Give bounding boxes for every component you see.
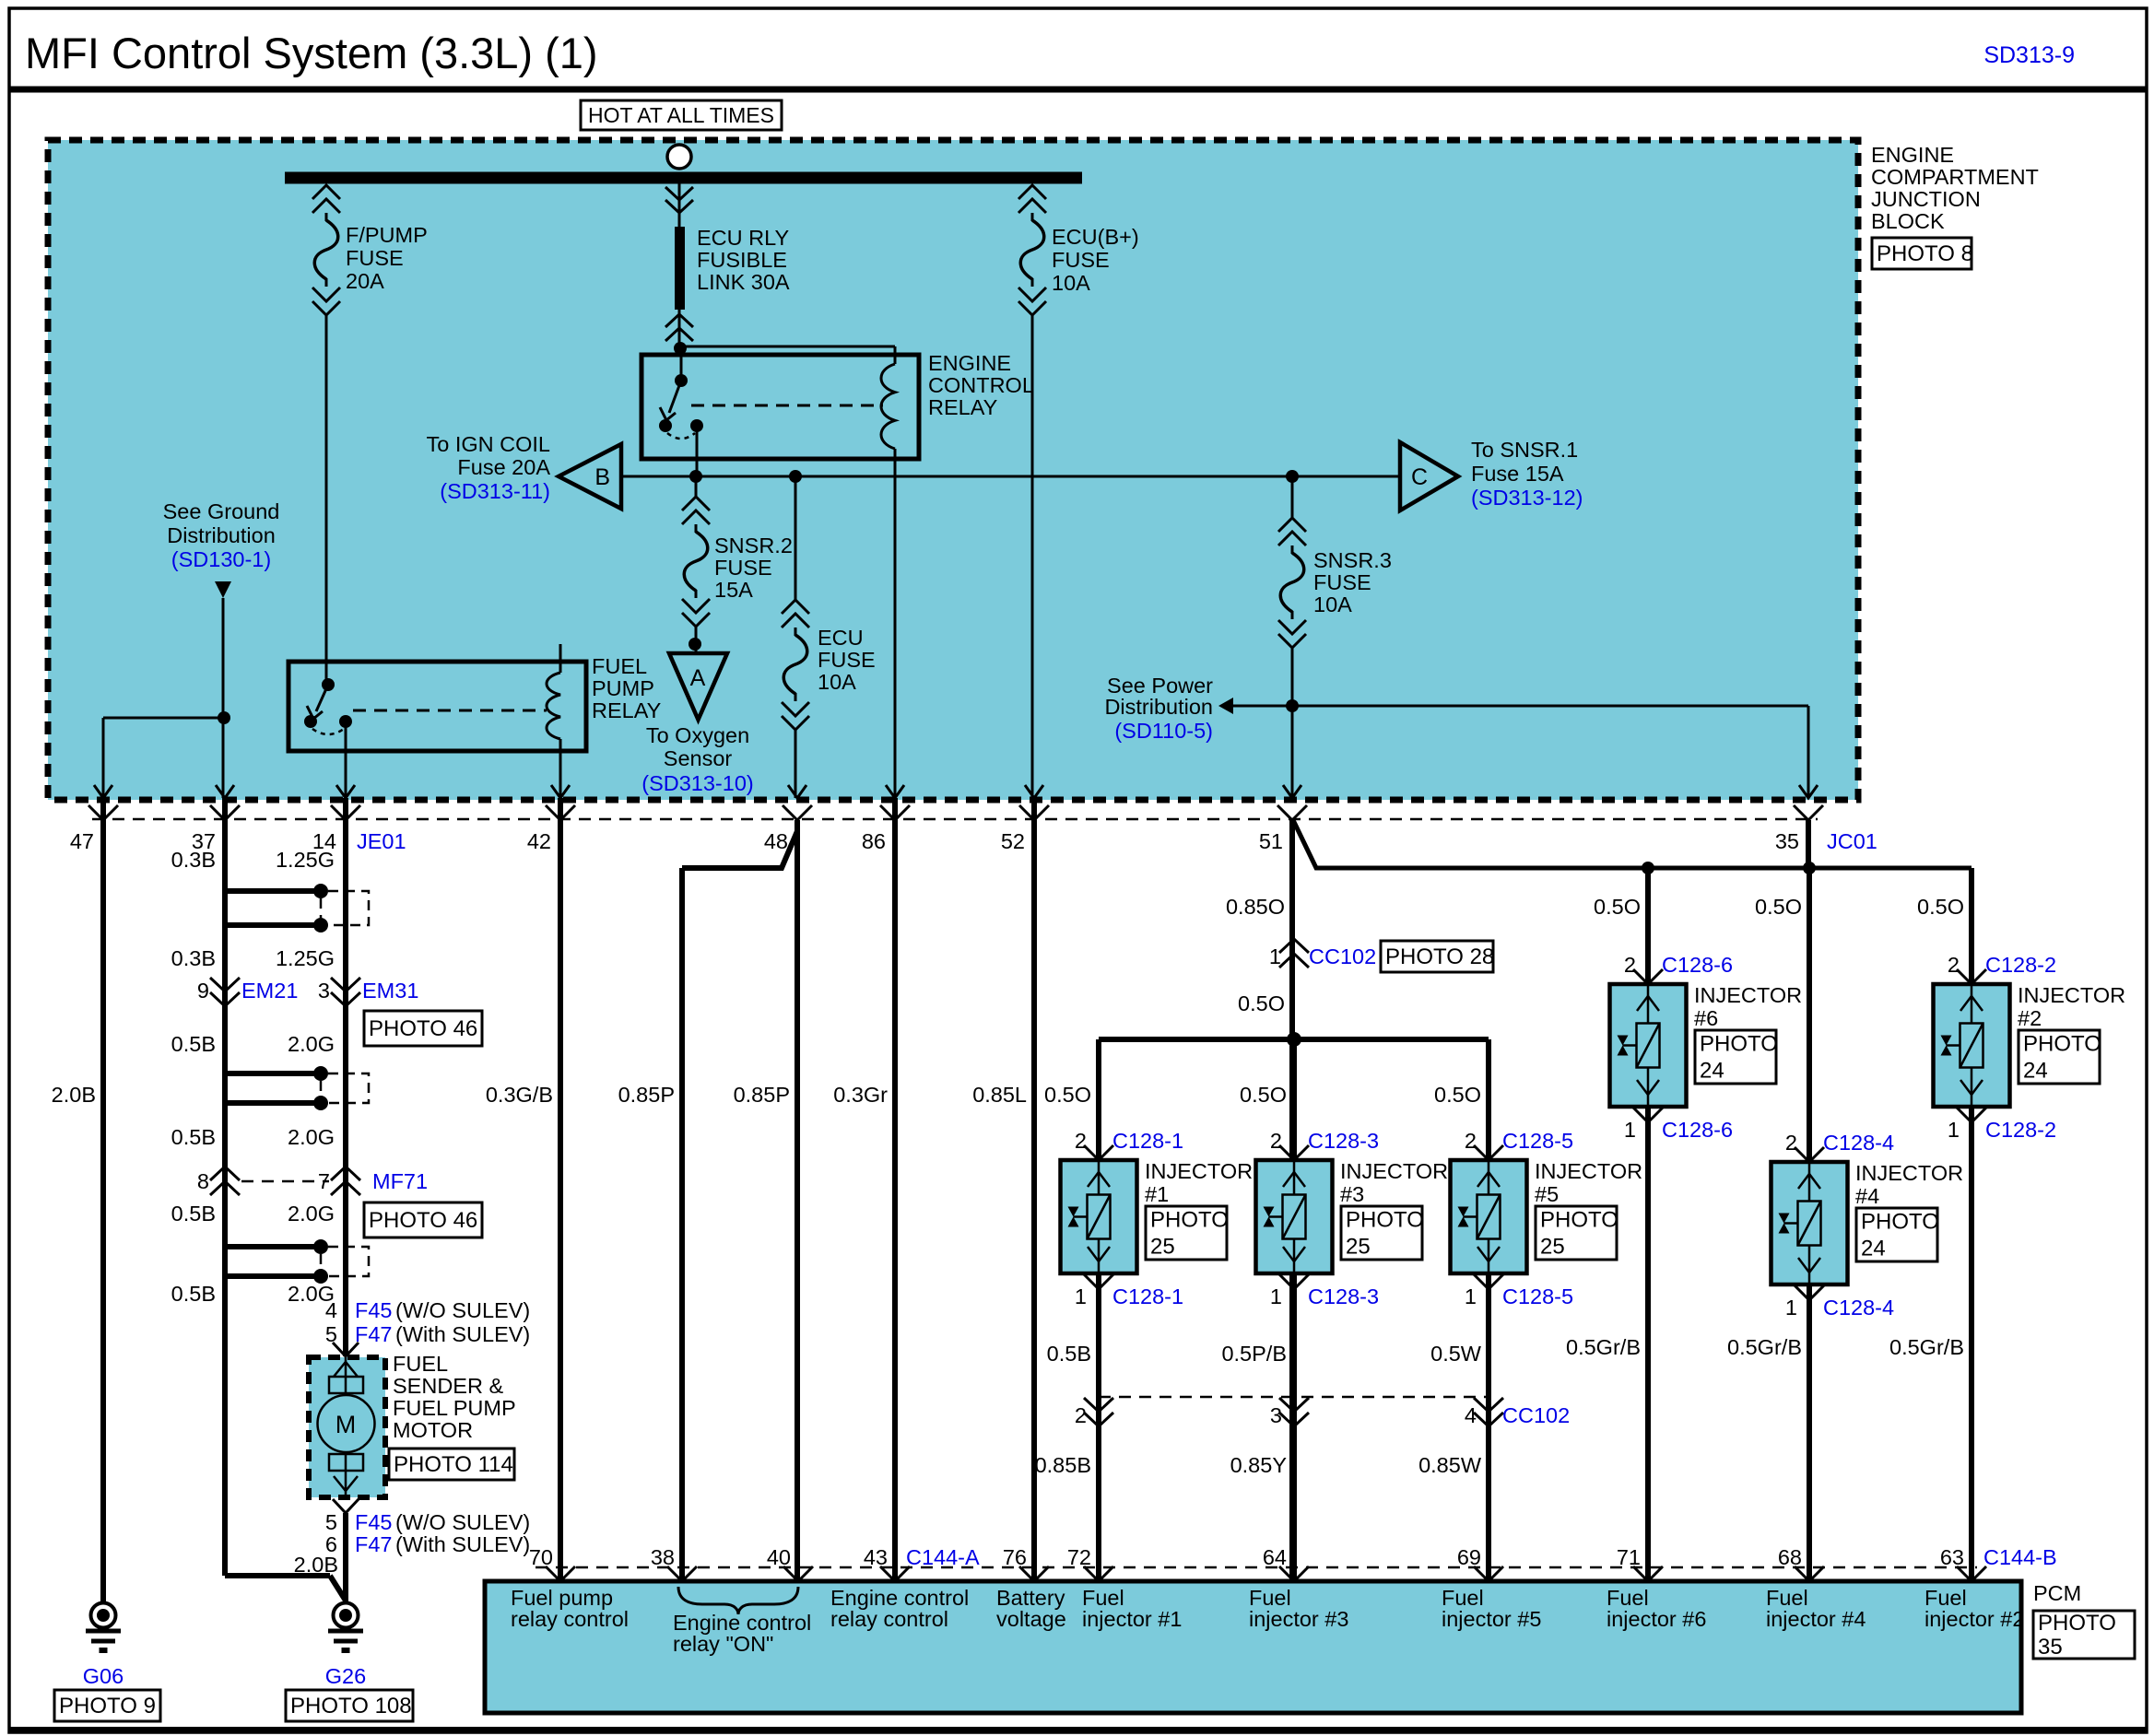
svg-text:#3: #3	[1340, 1182, 1364, 1206]
svg-text:0.5O: 0.5O	[1238, 991, 1285, 1015]
svg-text:0.85P: 0.85P	[734, 1083, 790, 1107]
svg-text:(W/O SULEV): (W/O SULEV)	[395, 1298, 530, 1322]
svg-text:Fuse 20A: Fuse 20A	[457, 455, 550, 479]
svg-text:2.0G: 2.0G	[288, 1032, 335, 1056]
svg-text:0.5O: 0.5O	[1917, 895, 1964, 919]
svg-text:INJECTOR: INJECTOR	[1535, 1159, 1642, 1183]
svg-text:PHOTO: PHOTO	[1700, 1032, 1778, 1057]
svg-text:Sensor: Sensor	[664, 746, 733, 770]
svg-text:FUEL PUMP: FUEL PUMP	[393, 1396, 516, 1420]
svg-text:C144-A: C144-A	[906, 1545, 980, 1569]
svg-text:C128-4: C128-4	[1823, 1131, 1894, 1155]
svg-text:FUSE: FUSE	[818, 648, 876, 672]
svg-text:2: 2	[1624, 953, 1636, 977]
svg-text:35: 35	[1775, 829, 1799, 853]
svg-text:C128-1: C128-1	[1112, 1129, 1183, 1153]
svg-text:INJECTOR: INJECTOR	[1145, 1159, 1253, 1183]
svg-text:C128-2: C128-2	[1985, 953, 2056, 977]
svg-text:24: 24	[2023, 1059, 2048, 1084]
svg-text:C128-3: C128-3	[1308, 1129, 1379, 1153]
svg-text:INJECTOR: INJECTOR	[1855, 1161, 1963, 1185]
svg-text:RELAY: RELAY	[592, 698, 662, 722]
svg-text:BLOCK: BLOCK	[1871, 209, 1945, 233]
svg-text:relay control: relay control	[511, 1607, 629, 1631]
svg-text:JC01: JC01	[1827, 829, 1877, 853]
svg-text:1: 1	[1269, 944, 1281, 968]
svg-text:PHOTO: PHOTO	[1346, 1208, 1424, 1233]
svg-text:EM21: EM21	[241, 979, 298, 1003]
svg-text:COMPARTMENT: COMPARTMENT	[1871, 165, 2039, 189]
svg-text:injector #1: injector #1	[1082, 1607, 1182, 1631]
svg-text:1: 1	[1465, 1284, 1477, 1308]
svg-text:0.5O: 0.5O	[1594, 895, 1641, 919]
svg-text:25: 25	[1150, 1235, 1175, 1260]
svg-text:0.5B: 0.5B	[1047, 1342, 1091, 1366]
svg-text:10A: 10A	[818, 670, 856, 694]
svg-text:0.85L: 0.85L	[972, 1083, 1027, 1107]
svg-text:68: 68	[1778, 1545, 1802, 1569]
svg-text:relay control: relay control	[830, 1607, 948, 1631]
svg-text:#2: #2	[2018, 1006, 2042, 1030]
svg-text:4: 4	[325, 1298, 337, 1322]
svg-text:C128-6: C128-6	[1662, 953, 1733, 977]
svg-text:1: 1	[1624, 1118, 1636, 1142]
svg-text:G06: G06	[83, 1664, 124, 1688]
svg-text:#5: #5	[1535, 1182, 1559, 1206]
svg-text:2.0B: 2.0B	[52, 1083, 96, 1107]
svg-text:0.5B: 0.5B	[171, 1125, 216, 1149]
svg-text:(SD110-5): (SD110-5)	[1114, 719, 1213, 743]
svg-text:0.5P/B: 0.5P/B	[1221, 1342, 1287, 1366]
svg-text:24: 24	[1861, 1237, 1886, 1261]
svg-text:B: B	[594, 464, 610, 490]
svg-text:FUSIBLE: FUSIBLE	[697, 248, 787, 272]
svg-text:C128-5: C128-5	[1502, 1284, 1573, 1308]
svg-text:C128-5: C128-5	[1502, 1129, 1573, 1153]
svg-text:MOTOR: MOTOR	[393, 1418, 473, 1442]
svg-text:To IGN COIL: To IGN COIL	[426, 432, 550, 456]
svg-text:F/PUMP: F/PUMP	[346, 223, 428, 247]
svg-text:0.5O: 0.5O	[1434, 1083, 1481, 1107]
svg-text:(SD313-11): (SD313-11)	[440, 479, 550, 503]
svg-text:42: 42	[527, 829, 551, 853]
svg-text:FUSE: FUSE	[1052, 248, 1110, 272]
svg-text:injector #3: injector #3	[1249, 1607, 1348, 1631]
svg-text:MF71: MF71	[372, 1169, 428, 1193]
svg-text:PHOTO 46: PHOTO 46	[369, 1016, 477, 1041]
svg-text:FUEL: FUEL	[592, 654, 647, 678]
svg-text:2: 2	[1785, 1131, 1797, 1155]
svg-text:EM31: EM31	[362, 979, 418, 1003]
svg-text:24: 24	[1700, 1059, 1724, 1084]
svg-text:(SD313-10): (SD313-10)	[641, 771, 753, 795]
svg-text:2: 2	[1948, 953, 1960, 977]
svg-text:1: 1	[1075, 1284, 1087, 1308]
svg-text:7: 7	[318, 1169, 330, 1193]
svg-text:69: 69	[1457, 1545, 1481, 1569]
svg-text:0.3B: 0.3B	[171, 848, 216, 872]
svg-text:CC102: CC102	[1309, 944, 1376, 968]
svg-text:C: C	[1411, 464, 1428, 490]
svg-text:15A: 15A	[714, 578, 753, 602]
svg-text:C144-B: C144-B	[1983, 1545, 2057, 1569]
svg-text:HOT AT ALL TIMES: HOT AT ALL TIMES	[588, 103, 774, 127]
svg-text:52: 52	[1001, 829, 1025, 853]
svg-text:5: 5	[325, 1322, 337, 1346]
svg-text:FUSE: FUSE	[1313, 570, 1371, 594]
svg-text:PHOTO 114: PHOTO 114	[394, 1452, 513, 1477]
svg-text:2.0B: 2.0B	[294, 1553, 338, 1577]
svg-text:3: 3	[1270, 1403, 1282, 1427]
svg-text:47: 47	[70, 829, 94, 853]
svg-text:43: 43	[864, 1545, 888, 1569]
svg-text:Distribution: Distribution	[167, 523, 276, 547]
svg-text:25: 25	[1540, 1235, 1565, 1260]
svg-text:PHOTO: PHOTO	[2038, 1611, 2116, 1636]
svg-text:JUNCTION: JUNCTION	[1871, 187, 1981, 211]
svg-text:0.85B: 0.85B	[1035, 1453, 1091, 1477]
svg-text:C128-3: C128-3	[1308, 1284, 1379, 1308]
svg-text:Fuse 15A: Fuse 15A	[1471, 462, 1564, 486]
svg-text:MFI Control System (3.3L) (1): MFI Control System (3.3L) (1)	[25, 29, 598, 77]
svg-text:#6: #6	[1694, 1006, 1718, 1030]
svg-text:38: 38	[651, 1545, 675, 1569]
svg-text:(W/O SULEV): (W/O SULEV)	[395, 1510, 530, 1534]
svg-text:SENDER &: SENDER &	[393, 1374, 503, 1398]
svg-text:72: 72	[1067, 1545, 1091, 1569]
svg-text:LINK 30A: LINK 30A	[697, 270, 790, 294]
svg-text:C128-4: C128-4	[1823, 1296, 1894, 1320]
svg-text:70: 70	[529, 1545, 553, 1569]
svg-text:voltage: voltage	[996, 1607, 1066, 1631]
svg-text:1: 1	[1785, 1296, 1797, 1320]
svg-text:To Oxygen: To Oxygen	[646, 723, 749, 747]
svg-text:0.85W: 0.85W	[1418, 1453, 1482, 1477]
svg-text:PHOTO: PHOTO	[1861, 1210, 1939, 1235]
svg-text:64: 64	[1263, 1545, 1287, 1569]
svg-text:0.85P: 0.85P	[618, 1083, 675, 1107]
svg-text:0.5W: 0.5W	[1430, 1342, 1482, 1366]
svg-text:0.3B: 0.3B	[171, 946, 216, 970]
svg-text:10A: 10A	[1052, 271, 1090, 295]
svg-text:9: 9	[197, 979, 209, 1003]
svg-text:71: 71	[1617, 1545, 1641, 1569]
svg-text:To SNSR.1: To SNSR.1	[1471, 438, 1578, 462]
svg-text:0.5B: 0.5B	[171, 1202, 216, 1226]
svg-text:63: 63	[1940, 1545, 1964, 1569]
svg-text:RELAY: RELAY	[928, 395, 998, 419]
svg-text:PUMP: PUMP	[592, 676, 654, 700]
svg-text:35: 35	[2038, 1635, 2063, 1660]
svg-text:0.5Gr/B: 0.5Gr/B	[1566, 1335, 1641, 1359]
svg-text:(With SULEV): (With SULEV)	[395, 1532, 530, 1556]
svg-text:injector #6: injector #6	[1607, 1607, 1706, 1631]
svg-text:See Ground: See Ground	[163, 499, 280, 523]
svg-text:C128-6: C128-6	[1662, 1118, 1733, 1142]
svg-text:25: 25	[1346, 1235, 1371, 1260]
svg-text:ENGINE: ENGINE	[1871, 143, 1954, 167]
svg-text:A: A	[690, 665, 706, 691]
svg-text:2: 2	[1465, 1129, 1477, 1153]
svg-text:0.5Gr/B: 0.5Gr/B	[1727, 1335, 1802, 1359]
svg-text:injector #5: injector #5	[1442, 1607, 1541, 1631]
svg-text:0.3Gr: 0.3Gr	[833, 1083, 888, 1107]
svg-text:relay "ON": relay "ON"	[673, 1632, 773, 1656]
svg-text:G26: G26	[325, 1664, 366, 1688]
svg-text:SD313-9: SD313-9	[1983, 42, 2075, 68]
svg-text:2: 2	[1075, 1403, 1087, 1427]
svg-text:F45: F45	[355, 1510, 393, 1534]
svg-text:2.0G: 2.0G	[288, 1125, 335, 1149]
svg-text:76: 76	[1003, 1545, 1027, 1569]
svg-text:F47: F47	[355, 1322, 393, 1346]
svg-text:INJECTOR: INJECTOR	[1694, 983, 1802, 1007]
svg-text:2: 2	[1270, 1129, 1282, 1153]
svg-text:0.5Gr/B: 0.5Gr/B	[1889, 1335, 1964, 1359]
svg-text:PHOTO: PHOTO	[1150, 1208, 1229, 1233]
svg-text:PHOTO: PHOTO	[1540, 1208, 1618, 1233]
svg-text:0.5O: 0.5O	[1240, 1083, 1287, 1107]
svg-text:(With SULEV): (With SULEV)	[395, 1322, 530, 1346]
svg-text:0.5O: 0.5O	[1755, 895, 1802, 919]
svg-text:CONTROL: CONTROL	[928, 373, 1034, 397]
svg-text:FUSE: FUSE	[714, 556, 772, 580]
svg-text:PHOTO: PHOTO	[2023, 1032, 2101, 1057]
svg-text:F47: F47	[355, 1532, 393, 1556]
svg-text:10A: 10A	[1313, 592, 1352, 616]
svg-text:PHOTO 108: PHOTO 108	[290, 1694, 412, 1718]
svg-text:FUSE: FUSE	[346, 246, 404, 270]
svg-text:PHOTO 46: PHOTO 46	[369, 1208, 477, 1233]
svg-text:0.5B: 0.5B	[171, 1282, 216, 1306]
svg-text:PHOTO 9: PHOTO 9	[59, 1694, 156, 1718]
svg-text:5: 5	[325, 1510, 337, 1534]
svg-text:INJECTOR: INJECTOR	[2018, 983, 2125, 1007]
svg-text:Distribution: Distribution	[1104, 695, 1213, 719]
svg-text:F45: F45	[355, 1298, 393, 1322]
svg-text:PHOTO 28: PHOTO 28	[1385, 944, 1494, 969]
svg-text:48: 48	[764, 829, 788, 853]
svg-text:FUEL: FUEL	[393, 1352, 448, 1376]
svg-text:1.25G: 1.25G	[276, 848, 335, 872]
svg-text:M: M	[335, 1411, 357, 1438]
svg-text:CC102: CC102	[1502, 1403, 1570, 1427]
svg-text:C128-1: C128-1	[1112, 1284, 1183, 1308]
svg-text:2.0G: 2.0G	[288, 1202, 335, 1226]
svg-text:INJECTOR: INJECTOR	[1340, 1159, 1448, 1183]
svg-text:8: 8	[197, 1169, 209, 1193]
svg-text:#1: #1	[1145, 1182, 1169, 1206]
svg-text:1.25G: 1.25G	[276, 946, 335, 970]
svg-text:0.3G/B: 0.3G/B	[486, 1083, 553, 1107]
svg-text:20A: 20A	[346, 269, 384, 293]
svg-text:0.85O: 0.85O	[1226, 895, 1285, 919]
svg-text:0.85Y: 0.85Y	[1230, 1453, 1288, 1477]
svg-text:ECU(B+): ECU(B+)	[1052, 225, 1139, 249]
svg-text:JE01: JE01	[357, 829, 406, 853]
svg-text:40: 40	[767, 1545, 791, 1569]
svg-text:51: 51	[1259, 829, 1283, 853]
svg-text:#4: #4	[1855, 1184, 1879, 1208]
svg-text:3: 3	[318, 979, 330, 1003]
svg-text:4: 4	[1465, 1403, 1477, 1427]
svg-text:ECU RLY: ECU RLY	[697, 226, 789, 250]
svg-text:86: 86	[862, 829, 886, 853]
svg-text:(SD313-12): (SD313-12)	[1471, 486, 1583, 510]
svg-text:SNSR.3: SNSR.3	[1313, 548, 1392, 572]
svg-text:injector #4: injector #4	[1766, 1607, 1866, 1631]
svg-text:C128-2: C128-2	[1985, 1118, 2056, 1142]
svg-text:1: 1	[1270, 1284, 1282, 1308]
svg-text:SNSR.2: SNSR.2	[714, 534, 793, 557]
svg-text:1: 1	[1948, 1118, 1960, 1142]
svg-text:(SD130-1): (SD130-1)	[171, 547, 271, 571]
svg-text:PCM: PCM	[2033, 1581, 2081, 1605]
svg-text:PHOTO 8: PHOTO 8	[1877, 241, 1973, 266]
svg-text:0.5O: 0.5O	[1044, 1083, 1091, 1107]
svg-text:2: 2	[1075, 1129, 1087, 1153]
svg-text:ECU: ECU	[818, 626, 864, 650]
svg-text:0.5B: 0.5B	[171, 1032, 216, 1056]
svg-text:ENGINE: ENGINE	[928, 351, 1011, 375]
svg-text:injector #2: injector #2	[1924, 1607, 2024, 1631]
